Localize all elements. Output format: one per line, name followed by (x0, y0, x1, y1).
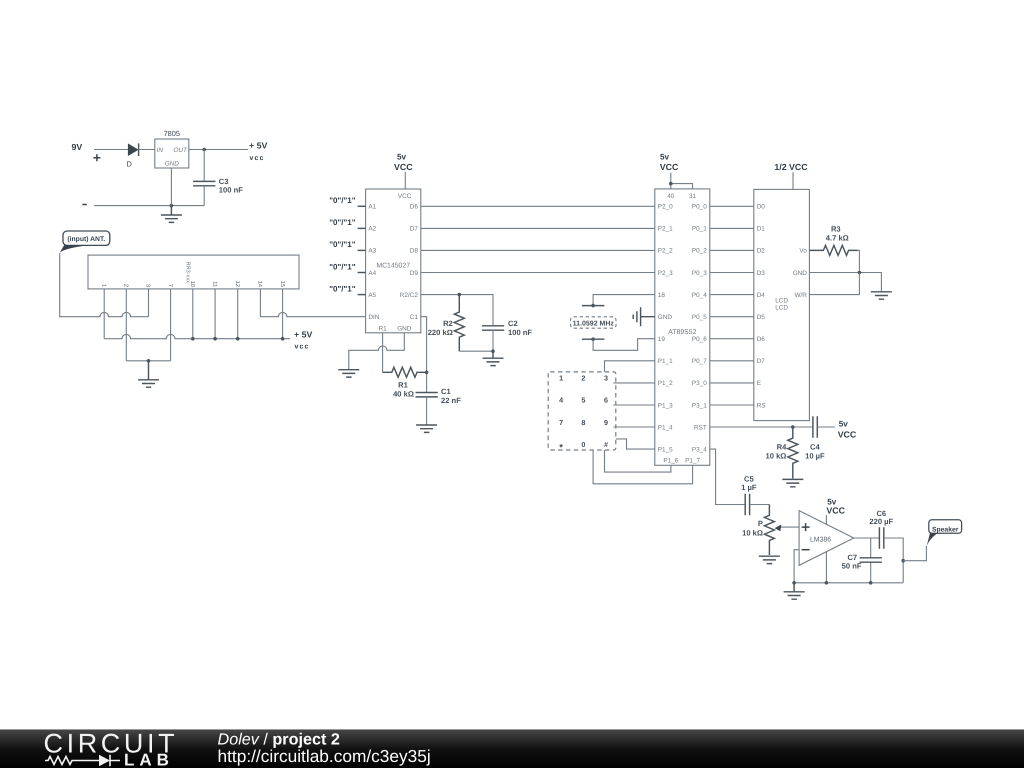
svg-text:C5: C5 (744, 474, 754, 483)
svg-text:10: 10 (189, 281, 195, 287)
wire D9 to P2_3 (421, 272, 655, 274)
svg-text:GND: GND (397, 325, 412, 332)
svg-text:LCD: LCD (775, 304, 788, 311)
svg-text:P1_7: P1_7 (685, 458, 700, 465)
svg-text:D4: D4 (757, 292, 766, 299)
wire output to C6 (854, 537, 880, 539)
svg-text:D8: D8 (410, 248, 419, 255)
svg-text:D: D (127, 160, 132, 169)
svg-text:P0_6: P0_6 (692, 336, 707, 343)
svg-text:P2_3: P2_3 (658, 270, 673, 277)
svg-text:D1: D1 (757, 226, 766, 233)
svg-text:R1: R1 (379, 325, 388, 332)
svg-text:VCC: VCC (826, 505, 845, 515)
wire R2/C2 node (421, 295, 493, 326)
ground symbol rotated at GND pin (633, 307, 655, 326)
svg-text:6: 6 (604, 396, 608, 405)
wire D8 to P2_2 (421, 249, 655, 251)
SECTION: audio (710, 449, 962, 599)
wire minus input to rail (794, 550, 799, 583)
svg-text:7: 7 (167, 284, 173, 287)
svg-text:RST: RST (694, 424, 707, 431)
svg-text:"0"/"1": "0"/"1" (329, 262, 356, 271)
svg-text:D5: D5 (757, 314, 766, 321)
capacitor C4 (813, 416, 817, 438)
svg-text:D9: D9 (410, 270, 419, 277)
svg-text:D6: D6 (410, 204, 419, 211)
op-amp minus input (802, 549, 810, 551)
wire pin15 (282, 289, 284, 339)
wire pin7 (170, 289, 172, 361)
wire opamp gnd stub (825, 552, 827, 583)
wire P0_5 to D5 (710, 316, 754, 318)
svg-text:19: 19 (658, 336, 666, 343)
svg-text:P1_2: P1_2 (658, 380, 673, 387)
svg-text:E: E (757, 380, 761, 387)
svg-text:vcc: vcc (295, 344, 310, 351)
capacitor C7 (870, 538, 872, 583)
ground symbol (759, 556, 780, 563)
pin stub A3 (358, 249, 366, 251)
svg-text:*: * (559, 443, 563, 454)
resistor R1 (383, 367, 427, 377)
svg-text:Vo: Vo (799, 248, 807, 255)
svg-text:15: 15 (279, 281, 285, 287)
svg-text:D7: D7 (410, 226, 419, 233)
module LCD box (754, 189, 810, 420)
wire vcc stub (825, 515, 827, 524)
keypad dashed box (548, 372, 616, 450)
svg-text:9: 9 (604, 418, 608, 427)
svg-text:D7: D7 (757, 358, 766, 365)
svg-text:GND: GND (658, 314, 673, 321)
svg-text:40 kΩ: 40 kΩ (393, 389, 414, 398)
svg-text:14: 14 (257, 281, 263, 287)
svg-text:MC145027: MC145027 (376, 263, 410, 270)
wire VCC to lcd (792, 172, 794, 194)
svg-text:P1_3: P1_3 (658, 402, 673, 409)
ground symbol (782, 479, 803, 486)
svg-text:C1: C1 (441, 387, 451, 396)
svg-text:18: 18 (658, 292, 666, 299)
op-amp LM386 (799, 511, 854, 566)
crystal plate top (582, 305, 605, 307)
svg-text:P0_7: P0_7 (692, 358, 707, 365)
wire D7 to P2_1 (421, 227, 655, 229)
svg-text:5: 5 (581, 396, 585, 405)
ground symbol (161, 206, 182, 223)
svg-text:IN: IN (157, 147, 164, 154)
node "0"/"1" labels (329, 196, 356, 293)
svg-text:P2_2: P2_2 (658, 248, 673, 255)
svg-text:GND: GND (793, 270, 808, 277)
wire P1_2 (613, 382, 654, 384)
wire P0_7 to D7 (710, 360, 754, 362)
svg-text:C2: C2 (508, 319, 518, 328)
wire W/R up to gnd node (809, 273, 859, 295)
svg-text:C1: C1 (410, 314, 419, 321)
pin stub A1 (358, 205, 366, 207)
svg-text:OUT: OUT (173, 147, 188, 154)
wire pin3 (148, 289, 150, 317)
wire R3 down to gnd node (858, 250, 860, 272)
ground symbol (871, 292, 892, 299)
wire P1_7 to keypad bottom (593, 450, 693, 484)
svg-text:11.0592 MHz: 11.0592 MHz (573, 321, 615, 328)
svg-text:100 nF: 100 nF (219, 186, 243, 195)
svg-text:D6: D6 (757, 336, 766, 343)
svg-text:P0_2: P0_2 (692, 248, 707, 255)
resistor R4 (788, 427, 798, 478)
diode D (128, 143, 139, 156)
svg-text:R3: R3 (831, 224, 841, 233)
svg-text:A1: A1 (368, 204, 376, 211)
svg-text:P0_3: P0_3 (692, 270, 707, 277)
svg-text:P0_4: P0_4 (692, 292, 707, 299)
pin stub A5 (358, 294, 366, 296)
wire pin12 (237, 289, 239, 339)
svg-text:VCC: VCC (838, 429, 857, 439)
wire C6 to speaker node (884, 538, 903, 583)
svg-text:5v: 5v (839, 420, 849, 429)
SECTION: at89s52 mcu (548, 152, 710, 483)
wire C3 to bottom rail (203, 186, 205, 206)
svg-text:4: 4 (559, 396, 563, 405)
wire ANT down and to pin3 with hops over pin1 pin2 (60, 253, 149, 317)
wire pin2 (125, 289, 127, 361)
regulator 7805 (155, 139, 189, 168)
svg-text:D0: D0 (757, 204, 766, 211)
svg-text:VCC: VCC (394, 162, 413, 172)
svg-text:100 nF: 100 nF (508, 328, 532, 337)
svg-text:2: 2 (581, 373, 585, 382)
wire P0_6 to D6 (710, 338, 754, 340)
svg-text:P1_6: P1_6 (663, 458, 678, 465)
SECTION: rr3 receiver (60, 231, 366, 387)
svg-text:R4: R4 (777, 443, 787, 452)
svg-text:5v: 5v (660, 152, 670, 161)
SECTION: footer (0, 729, 1024, 768)
pin stub A4 (358, 272, 366, 274)
svg-text:2: 2 (123, 284, 129, 287)
svg-text:+ 5V: + 5V (249, 141, 267, 151)
svg-text:12: 12 (234, 281, 240, 287)
wire P0_4 to D4 (710, 294, 754, 296)
wire P0_3 to D3 (710, 272, 754, 274)
wire GND pin with hop over R1 wire (349, 333, 405, 370)
svg-text:+ 5V: + 5V (294, 329, 312, 339)
svg-text:P0_5: P0_5 (692, 314, 707, 321)
svg-text:7805: 7805 (164, 129, 180, 138)
svg-text:1: 1 (100, 284, 106, 287)
potentiometer P (764, 505, 774, 556)
svg-text:W/R: W/R (794, 292, 807, 299)
resistor R2 (454, 295, 464, 352)
node junction dot (147, 359, 151, 363)
svg-text:31: 31 (689, 193, 697, 200)
svg-text:VCC: VCC (398, 193, 412, 200)
SECTION: lcd (710, 162, 892, 487)
logo squiggle resistor diode (45, 757, 80, 765)
wire P1_6 to keypad bottom (605, 450, 671, 472)
wire pin11 (214, 289, 216, 339)
svg-text:9V: 9V (72, 142, 83, 152)
crystal value callout (571, 317, 616, 328)
keypad digits (559, 373, 608, 453)
svg-text:11: 11 (211, 281, 217, 287)
capacitor C1 (416, 393, 438, 397)
wire 9V to diode (94, 149, 128, 151)
svg-text:0: 0 (581, 440, 585, 449)
wire 7805 GND pin (170, 168, 172, 206)
wire bottom rail (794, 582, 903, 584)
svg-text:A2: A2 (368, 226, 376, 233)
ground symbol (483, 351, 504, 365)
wire P1_4 (613, 426, 654, 428)
svg-text:AT89S52: AT89S52 (668, 329, 696, 336)
svg-text:P2_1: P2_1 (658, 226, 673, 233)
svg-text:P3_4: P3_4 (692, 446, 707, 453)
svg-text:1/2 VCC: 1/2 VCC (774, 162, 808, 172)
svg-text:10 kΩ: 10 kΩ (742, 528, 763, 537)
crystal X1 pin18 wire (593, 295, 655, 306)
wire P1_5 (616, 439, 655, 449)
svg-text:R1: R1 (398, 381, 408, 390)
svg-text:10 µF: 10 µF (805, 451, 825, 460)
svg-text:"0"/"1": "0"/"1" (329, 196, 356, 205)
capacitor C5 (745, 494, 749, 516)
svg-text:http://circuitlab.com/c3ey35j: http://circuitlab.com/c3ey35j (218, 746, 431, 766)
node junction dot gnd (170, 204, 174, 208)
pin number labels rotated (100, 281, 284, 287)
svg-text:22 nF: 22 nF (441, 396, 461, 405)
wire RST to C4 (710, 426, 813, 428)
svg-text:"0"/"1": "0"/"1" (329, 284, 356, 293)
svg-text:5v: 5v (397, 152, 407, 161)
ground symbol (784, 583, 805, 599)
svg-text:P0_1: P0_1 (692, 226, 707, 233)
ground symbol (338, 370, 359, 377)
wire speaker branch (903, 546, 926, 561)
wire P3_0 to E (710, 382, 754, 384)
capacitor C6 (879, 527, 883, 549)
ground symbol (416, 425, 437, 432)
svg-text:P0_0: P0_0 (692, 204, 707, 211)
svg-text:3: 3 (604, 373, 608, 382)
svg-text:4.7 kΩ: 4.7 kΩ (826, 233, 849, 242)
svg-text:RS: RS (757, 402, 766, 409)
op-amp plus input (802, 523, 810, 531)
svg-text:#: # (604, 440, 608, 449)
node minus sign (82, 204, 87, 206)
svg-text:D3: D3 (757, 270, 766, 277)
wire VCC to pins 40 and 31 (671, 173, 693, 189)
wire R2 C2 to gnd (459, 330, 493, 351)
SECTION: power supply (72, 129, 268, 222)
wire P1_1 to keypad top (605, 361, 655, 372)
wire C1 pin down (421, 317, 427, 393)
wire pin14 to DIN with hop over pin15 (260, 289, 365, 317)
svg-text:10 kΩ: 10 kΩ (766, 451, 787, 460)
wire C1 to gnd (426, 397, 428, 425)
svg-text:220 µF: 220 µF (869, 517, 893, 526)
svg-text:LM386: LM386 (810, 537, 831, 544)
wire +5V rail with hops over pin2 pin7 (104, 334, 290, 338)
svg-text:LAB: LAB (124, 751, 174, 768)
wire pin1 (103, 289, 105, 339)
svg-text:LCD: LCD (775, 297, 788, 304)
svg-text:Speaker: Speaker (932, 527, 959, 534)
svg-text:(input) ANT.: (input) ANT. (67, 236, 105, 243)
node junction dots on rail (191, 337, 195, 341)
wire D6 to P2_0 (421, 205, 655, 207)
wire pin2 to pin7 (126, 360, 170, 362)
svg-text:8: 8 (581, 418, 585, 427)
svg-text:GND: GND (165, 160, 180, 167)
pin stub A2 (358, 227, 366, 229)
node Speaker callout (929, 520, 962, 533)
svg-text:3: 3 (145, 284, 151, 287)
svg-text:1: 1 (559, 373, 563, 382)
SECTION: mc145027 decoder (329, 152, 655, 432)
svg-text:P3_0: P3_0 (692, 380, 707, 387)
svg-text:vcc: vcc (250, 155, 265, 162)
resistor R3 (809, 245, 857, 255)
wire pin10 (192, 289, 194, 339)
ground symbol (138, 361, 159, 387)
wire P1_3 (613, 404, 654, 406)
wire P0_0 to D0 (710, 205, 754, 207)
wire P0_1 to D1 (710, 227, 754, 229)
svg-text:P3_1: P3_1 (692, 402, 707, 409)
node junction dot (202, 148, 206, 152)
pot wiper arrow (780, 526, 800, 528)
capacitor C2 (482, 326, 504, 330)
wire OUT to +5V (189, 149, 248, 151)
wire OUT node down to C3 (203, 150, 205, 182)
svg-text:D2: D2 (757, 248, 766, 255)
node plus sign (93, 154, 100, 161)
wire bottom rail (94, 205, 204, 207)
node ANT callout (63, 231, 110, 245)
wire GND pin to earth (809, 273, 881, 292)
svg-text:40: 40 (667, 193, 675, 200)
svg-text:"0"/"1": "0"/"1" (329, 218, 356, 227)
wire P3_4 to C5 (710, 449, 745, 504)
svg-text:A5: A5 (368, 292, 376, 299)
wire P0_2 to D2 (710, 249, 754, 251)
crystal plate bottom (582, 338, 605, 340)
svg-text:DIN: DIN (368, 314, 379, 321)
svg-text:R2/C2: R2/C2 (400, 292, 419, 299)
svg-text:220 kΩ: 220 kΩ (428, 328, 453, 337)
svg-text:P1_4: P1_4 (658, 424, 673, 431)
svg-text:R2: R2 (443, 319, 453, 328)
svg-text:50 nF: 50 nF (842, 561, 862, 570)
svg-text:A4: A4 (368, 270, 376, 277)
wire crystal to pin19 (593, 339, 655, 351)
svg-text:7: 7 (559, 418, 563, 427)
wire R1 pin down (382, 333, 384, 373)
svg-text:P1_1: P1_1 (658, 358, 673, 365)
svg-text:A3: A3 (368, 248, 376, 255)
ic AT89S52 (655, 189, 710, 465)
module RR3-xxx box (88, 255, 299, 289)
wire diode to 7805 (139, 149, 155, 151)
svg-text:P: P (758, 519, 763, 528)
svg-text:VCC: VCC (660, 162, 679, 172)
svg-text:P1_5: P1_5 (658, 446, 673, 453)
svg-text:1 µF: 1 µF (741, 483, 757, 492)
ic MC145027 (366, 189, 421, 333)
wire VCC to chip (404, 172, 406, 189)
svg-text:P2_0: P2_0 (658, 204, 673, 211)
capacitor C3 (193, 181, 215, 185)
svg-text:"0"/"1": "0"/"1" (329, 240, 356, 249)
svg-text:C4: C4 (810, 443, 820, 452)
wire P3_1 to RS (710, 404, 754, 406)
